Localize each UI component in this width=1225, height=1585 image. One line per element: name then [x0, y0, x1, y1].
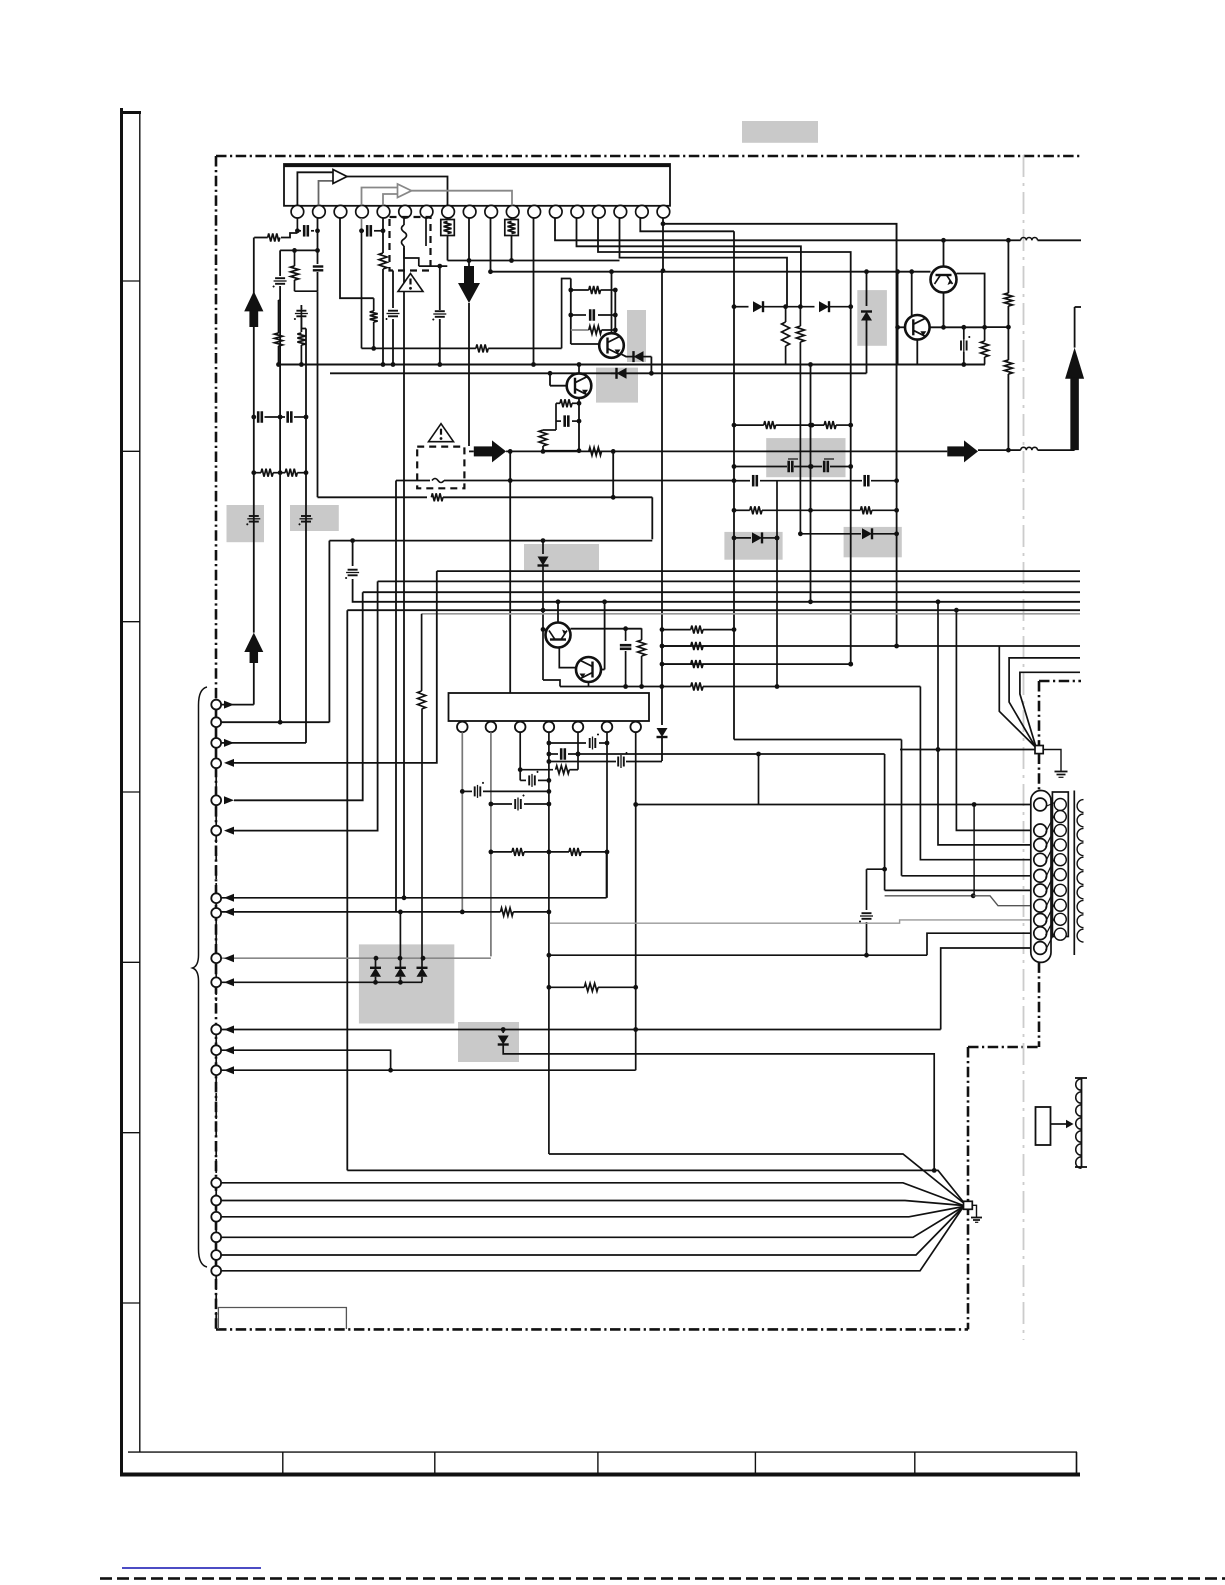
- wire x556: [555, 403, 557, 430]
- terminal column dashdot mid2: [215, 987, 217, 1024]
- wire pin9 to arrow: [468, 218, 470, 266]
- wire pin8 vertical: [447, 236, 449, 261]
- row y686 resistor R27: [560, 686, 691, 688]
- junction square J1: [1035, 746, 1043, 754]
- boxed resistor TH2: [505, 220, 519, 236]
- wire y266 row: [419, 265, 448, 267]
- wire x347 long: [346, 610, 348, 1170]
- wire x897 vertical: [897, 272, 899, 365]
- wire x301: [300, 305, 302, 309]
- wire term13: [222, 1069, 636, 1071]
- board boundary right lower: [967, 1047, 970, 1329]
- row y770 resistor R18: [520, 769, 553, 771]
- diode D4: [617, 368, 627, 379]
- wire x850 down: [850, 307, 852, 664]
- row y955 long: [549, 954, 927, 956]
- sensor box: [1036, 1107, 1051, 1145]
- wire x280 upper: [279, 250, 281, 276]
- resistor R12 vertical: [984, 327, 986, 341]
- board boundary right upper seg: [1038, 962, 1041, 1047]
- transistor T1: [931, 267, 957, 293]
- bottom dashed separator: [100, 1577, 112, 1580]
- diode D5: [734, 537, 751, 539]
- title block divider 3: [597, 1452, 599, 1474]
- conn feed c4: [920, 687, 1031, 860]
- IC2 pin6 wire: [606, 732, 608, 898]
- wire x393 from F1: [392, 271, 394, 309]
- wire x810 vertical: [810, 365, 812, 602]
- net bus pin16: [620, 218, 788, 307]
- connector CN1 body: [1031, 791, 1051, 963]
- wire x396 down: [395, 481, 397, 912]
- label box bottom left: [218, 1308, 346, 1330]
- wire Q2 bottom: [578, 398, 580, 450]
- rail y271.7: [491, 271, 931, 273]
- wire T1 top: [943, 240, 945, 266]
- row y754 capacitor C13: [549, 753, 558, 755]
- title block divider 1: [282, 1452, 284, 1474]
- IC2 pin1 wire: [461, 732, 463, 912]
- wire pin2 vertical long: [317, 291, 319, 497]
- sensor arrow: [1051, 1123, 1067, 1125]
- wire x777: [776, 481, 778, 687]
- capacitor C1: [296, 230, 301, 232]
- wire y480 F row: [396, 480, 430, 482]
- row y912 resistor R22: [222, 911, 501, 913]
- connector CN2 body: [1052, 792, 1068, 937]
- row y646 resistor R25: [691, 642, 703, 650]
- resistor R28 vertical: [373, 298, 375, 311]
- row y982: [222, 981, 423, 983]
- net bus pin17: [640, 218, 734, 231]
- diode D6: [800, 533, 861, 535]
- flow arrow A4 right: [474, 446, 493, 456]
- bus y610: [347, 609, 1080, 611]
- wire term11: [222, 1029, 941, 1031]
- resistor row y472: [254, 472, 261, 474]
- capacitor C22 electrolytic: [352, 541, 354, 566]
- wire x436 to term4: [232, 571, 437, 763]
- capacitor row y417: [254, 416, 256, 418]
- connector CN1 tail: [1039, 961, 1041, 963]
- board boundary left: [215, 156, 218, 1329]
- page frame bottom thin: [128, 1451, 1077, 1453]
- wire x362 to term5: [234, 592, 363, 800]
- highlight box diode D11: [458, 1022, 519, 1062]
- bus y571: [437, 570, 1080, 572]
- zener diode ZD1: [866, 272, 868, 306]
- node wire y749: [900, 749, 1035, 751]
- page frame tick 5: [122, 961, 140, 963]
- diode D3: [657, 728, 668, 737]
- highlight box capacitor C20: [227, 505, 265, 542]
- conn feed c2: [956, 610, 1031, 830]
- wire pin3 drop: [340, 218, 374, 298]
- wire x607 to term7: [222, 897, 607, 899]
- funnel wire y646: [662, 645, 1080, 647]
- capacitor C21 electrolytic: [301, 515, 311, 517]
- wire Q1 base: [571, 343, 599, 345]
- terminal group brace: [193, 687, 208, 1267]
- rail y450 right: [978, 449, 1008, 451]
- inductor L1: [1021, 237, 1027, 240]
- terminal arrow t7: [224, 894, 234, 902]
- ferrite strip body: [1081, 1078, 1083, 1167]
- resistor R7: [571, 329, 589, 331]
- diode D8: [753, 301, 763, 312]
- wire y291 link: [295, 290, 318, 292]
- wire A6 top: [1074, 307, 1076, 348]
- highlight box diode D2 area: [596, 368, 638, 403]
- row y987 resistor R23: [549, 986, 584, 988]
- page frame left inner: [139, 112, 141, 1452]
- safety box F1 dashed: [390, 217, 431, 271]
- bottom blue underline: [122, 1567, 261, 1569]
- resistor R15 y497: [318, 496, 428, 498]
- wire y260 row: [448, 260, 620, 262]
- rail y364 main: [279, 364, 986, 366]
- rail y373: [330, 372, 867, 374]
- resistor R20 on y451: [589, 447, 602, 455]
- wire x306 long: [305, 417, 307, 743]
- page frame bottom thick: [120, 1473, 1080, 1477]
- fan wire term19: [222, 1207, 964, 1271]
- wire x974 link: [973, 805, 975, 896]
- capacitor C20 electrolytic: [249, 515, 259, 517]
- wire x613: [612, 451, 614, 497]
- ground G2: [972, 1205, 976, 1217]
- flow arrow A1 up: [244, 291, 263, 311]
- wire x510 vertical: [509, 451, 511, 693]
- wire Q4 right: [601, 669, 605, 671]
- comparator A output wire: [347, 177, 448, 206]
- row y780 capacitor C15: [520, 779, 526, 781]
- capacitor C4 electrolytic: [296, 310, 306, 312]
- title block right edge: [1076, 1452, 1078, 1474]
- comparator B triangle: [398, 184, 412, 198]
- wire T2 right: [930, 326, 985, 328]
- connector CN1 pins: [1034, 798, 1047, 811]
- node x253 top corner: [253, 238, 255, 292]
- board boundary jog: [968, 1046, 1039, 1049]
- resistor R13 vertical: [1004, 293, 1012, 306]
- fan wire b: [549, 1154, 963, 1203]
- wire Q1 emitter to D2: [620, 354, 628, 357]
- board boundary conn stub upper: [1038, 754, 1041, 791]
- page frame tick 7: [122, 1302, 140, 1304]
- wire x911 collector: [911, 272, 913, 317]
- wire x440 capacitor line: [439, 266, 441, 310]
- bus y601 dots: [936, 599, 941, 604]
- wire x561: [562, 279, 571, 349]
- transistor Q2: [567, 373, 592, 398]
- wire x615: [614, 290, 616, 333]
- resistor row y425: [734, 424, 764, 426]
- net bus pin18 branch: [662, 218, 664, 224]
- terminal circles upper group: [211, 700, 221, 710]
- resistor R6: [571, 289, 589, 291]
- wire y539: [329, 540, 652, 542]
- resistor R10 vertical: [785, 307, 787, 322]
- wire x866 lower: [866, 869, 868, 910]
- board boundary top right: [1039, 680, 1081, 683]
- title block divider 5: [914, 1452, 916, 1474]
- net bus pin15: [598, 218, 851, 307]
- row y851 resistors R19 R21: [491, 851, 512, 853]
- flow arrow A2 up: [244, 633, 263, 652]
- highlight box diode D5: [724, 532, 782, 560]
- shield boundary (light): [1023, 155, 1025, 1340]
- diode D11: [502, 1030, 504, 1034]
- comparator B input wires: [362, 188, 398, 206]
- bus y581: [378, 580, 1080, 582]
- wire term2: [222, 721, 330, 723]
- IC2 pin5 wire: [577, 732, 579, 770]
- IC2 pin3 wire: [519, 732, 521, 780]
- wire x329: [328, 541, 330, 723]
- fan wire term16: [222, 1207, 964, 1217]
- wire T2 bottom: [916, 340, 918, 365]
- ferrite strip windings: [1076, 1079, 1082, 1091]
- IC2 pin7 wire: [635, 732, 637, 1070]
- wire x734 long: [733, 231, 735, 739]
- board boundary top: [216, 155, 1080, 158]
- fan wire a: [347, 1170, 963, 1201]
- wire x571 vertical: [570, 279, 572, 345]
- wire Q1 collector: [611, 272, 613, 334]
- fan wire term17: [222, 1207, 964, 1238]
- flow arrow A6 up: [1065, 348, 1084, 379]
- terminal column dashdot bottom: [215, 1276, 217, 1329]
- row y629 resistor R24: [662, 629, 691, 631]
- capacitor C2 on pin2: [313, 265, 324, 267]
- junction square J2: [964, 1201, 973, 1209]
- highlight box diode D7: [524, 544, 599, 570]
- funnel wire y664: [662, 663, 851, 665]
- comparator B output wire: [412, 191, 513, 206]
- wire y307 diode row: [734, 306, 749, 308]
- board boundary bottom: [216, 1328, 968, 1331]
- capacitor C11: [625, 628, 627, 641]
- title block divider 4: [754, 1452, 756, 1474]
- capacitor C9: [556, 420, 561, 422]
- transistor Q3: [546, 623, 571, 648]
- page frame tick 3: [122, 621, 140, 623]
- row y664 resistor R26: [691, 660, 703, 668]
- IC IC1 body: [284, 164, 670, 206]
- terminal arrow t1: [224, 701, 234, 709]
- terminal arrow t12: [224, 1046, 234, 1054]
- resistor R8: [556, 402, 560, 404]
- IC2 pin4 wire main: [548, 732, 550, 1154]
- page frame left outer: [120, 108, 123, 1476]
- triple diode D12a: [375, 958, 377, 968]
- highlight box capacitor row: [766, 438, 845, 477]
- row y348: [362, 347, 476, 349]
- resistor R3 vertical: [297, 333, 305, 345]
- resistor R5 on pin5: [379, 253, 387, 269]
- row y743 capacitor C12: [549, 742, 586, 744]
- wire pin5 vertical: [382, 218, 384, 253]
- wire Q3 top: [557, 602, 559, 623]
- capacitor row y466: [734, 466, 787, 468]
- terminal column dashdot mid: [215, 835, 217, 893]
- resistor R16 vertical: [418, 691, 426, 709]
- connector CN1-CN2 links: [1046, 803, 1055, 807]
- wire T1 left: [930, 273, 932, 275]
- board boundary above node: [1038, 681, 1041, 746]
- rail y451 mid: [506, 450, 947, 452]
- wire pin6 long vertical: [403, 246, 405, 898]
- rail y451 with arrows: [469, 450, 474, 452]
- resistor R17 vertical: [641, 628, 643, 640]
- row y791 capacitor C16: [462, 790, 472, 792]
- capacitor C7 electrolytic: [388, 310, 398, 312]
- resistor R2 vertical: [294, 250, 296, 266]
- highlight box right of Q1: [627, 310, 646, 362]
- row y956 gray: [222, 957, 491, 959]
- wire x253 long: [253, 291, 255, 633]
- transistor Q1: [599, 333, 624, 358]
- terminal arrow t10: [224, 978, 234, 986]
- page frame top cap: [120, 111, 141, 114]
- warning triangle W1: [398, 274, 423, 292]
- capacitor C8: [571, 314, 586, 316]
- wire pin4 stub: [361, 218, 363, 231]
- terminal circles lower group: [211, 1178, 221, 1188]
- wire x377 to term6: [232, 581, 378, 830]
- wire term12: [222, 1050, 391, 1070]
- connector CN2 pins: [1054, 799, 1066, 811]
- terminal arrow t13: [224, 1066, 234, 1074]
- wire y739: [734, 739, 902, 741]
- wire x662 long: [662, 224, 664, 271]
- wire Q2 base: [550, 385, 567, 387]
- page frame tick 4: [122, 791, 140, 793]
- terminal column line low: [215, 1178, 217, 1276]
- capacitor row y481: [734, 480, 750, 482]
- wire pin1 stub: [296, 218, 298, 233]
- conn feed c7 gray: [885, 895, 974, 897]
- net bus pin13: [555, 218, 1008, 240]
- triple diode D12c: [421, 709, 423, 968]
- funnel wire y658: [1009, 658, 1080, 748]
- comparator A triangle: [333, 170, 347, 184]
- terminal arrow t11: [224, 1026, 234, 1034]
- highlight box diode D6: [844, 527, 902, 557]
- wire pin12 vertical: [533, 218, 535, 365]
- wire y307 mid: [786, 306, 815, 308]
- IC IC2 body: [449, 693, 650, 721]
- diode D2: [634, 351, 644, 362]
- terminal column line mid2: [215, 1024, 217, 1075]
- page frame tick 2: [122, 450, 140, 452]
- row y761 capacitor C14: [549, 761, 616, 763]
- wire y327 stub: [985, 326, 1009, 328]
- highlight box capacitor C21: [290, 505, 339, 531]
- diode D9: [819, 301, 829, 312]
- conn feed c3: [938, 602, 1032, 845]
- wire x280 long: [279, 417, 281, 722]
- terminal arrow t4: [224, 759, 234, 767]
- capacitor C3 electrolytic: [275, 277, 285, 279]
- terminal arrow t9: [224, 954, 234, 962]
- wire pin11 below: [511, 236, 513, 261]
- conn feed c5: [901, 740, 903, 876]
- row y804 capacitor C17: [491, 803, 512, 805]
- fusible resistor FR1 icon: [402, 225, 407, 246]
- terminal column line upper: [215, 700, 217, 835]
- wire x896 upper: [896, 224, 898, 481]
- resistor R9 vertical: [539, 430, 547, 446]
- triple diode D12b: [399, 912, 401, 968]
- wire Q4 left: [559, 647, 576, 667]
- ground G1: [1043, 750, 1061, 772]
- bus y592: [363, 591, 1080, 593]
- highlight box zener ZD1: [857, 290, 887, 346]
- capacitor C10 electrolytic: [963, 327, 965, 339]
- bus y613 gray: [422, 613, 1080, 615]
- row y804: [636, 804, 1032, 806]
- wire x306 upper: [305, 329, 307, 418]
- wire T1-T2 link: [943, 293, 945, 328]
- wire Q3 right: [571, 628, 642, 630]
- capacitor C5: [362, 230, 365, 232]
- wire term3: [222, 742, 307, 744]
- ecap marks row y466: [788, 458, 798, 460]
- title block divider 6: [1076, 1452, 1078, 1474]
- capacitor C6 electrolytic: [435, 310, 445, 312]
- wire arrow A3 to line: [468, 303, 470, 446]
- terminal column dashdot low: [215, 1075, 217, 1178]
- warning triangle W2: [429, 424, 454, 442]
- conn feed c6: [884, 754, 886, 890]
- terminal arrow t8: [224, 908, 234, 916]
- diode D7: [542, 541, 544, 554]
- comparator A inside IC1 input wires: [297, 172, 333, 205]
- wire T1 right bend: [957, 274, 985, 328]
- wire Q2 top: [578, 363, 580, 373]
- transistor T2: [905, 315, 930, 340]
- title block divider 2: [434, 1452, 436, 1474]
- funnel wire y674: [1020, 672, 1080, 749]
- connector CN3 half pins: [1077, 800, 1083, 813]
- resistor R4 vertical: [278, 300, 280, 333]
- net bus pin14: [577, 218, 801, 307]
- wire T2 base: [898, 326, 905, 328]
- boxed resistor TH1: [441, 220, 455, 236]
- wire pin2 vertical upper: [317, 218, 319, 264]
- terminal arrow t6: [224, 827, 234, 835]
- resistor R1 wire: [281, 233, 297, 238]
- fan wire term15: [222, 1201, 964, 1206]
- resistor R11 vertical: [799, 307, 801, 326]
- resistor row y510: [734, 509, 750, 511]
- conn feed c8 gray: [550, 920, 1032, 923]
- IC IC2 pins 1-7: [457, 722, 468, 733]
- terminal arrow t3: [224, 739, 234, 747]
- transistor Q4: [576, 657, 601, 682]
- wire Q4 bottom: [588, 682, 590, 687]
- wire x1008 vertical: [1007, 240, 1009, 293]
- fan wire term18: [222, 1207, 964, 1256]
- IC2 pin2 wire: [490, 732, 492, 956]
- highlight box (part label) top: [742, 121, 818, 143]
- flow arrow A3 down: [464, 266, 474, 284]
- wire y869: [867, 868, 885, 870]
- page frame tick 1: [122, 280, 140, 282]
- wire x278 to y250: [279, 299, 282, 301]
